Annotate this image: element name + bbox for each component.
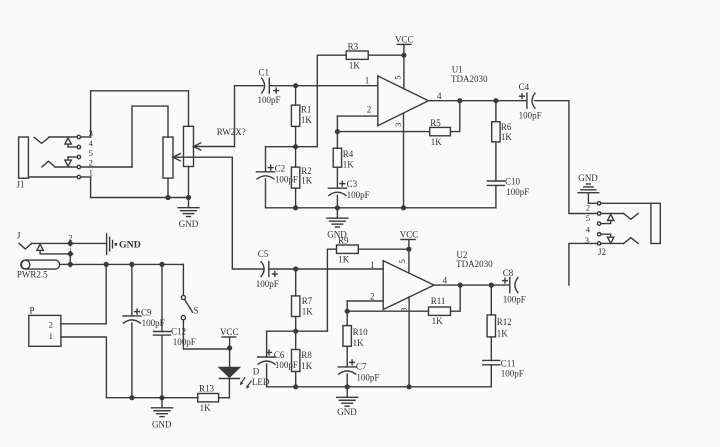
wire to pin1 U1	[296, 85, 378, 87]
ground ch1	[336, 208, 338, 218]
svg-text:C4: C4	[519, 82, 530, 92]
svg-text:TDA2030: TDA2030	[456, 259, 493, 269]
resistor R5	[430, 127, 451, 135]
wiper B	[173, 156, 232, 158]
J1 switch arrow pin4	[65, 138, 71, 144]
wire	[451, 285, 461, 311]
wire pad to ground	[70, 242, 106, 244]
J2 pin top	[597, 202, 600, 205]
resistor R12	[490, 285, 492, 315]
power jack barrel pin	[21, 260, 60, 269]
capacitor C8	[509, 278, 511, 293]
svg-text:1: 1	[69, 247, 72, 254]
ground rail power	[106, 397, 197, 399]
wire	[601, 213, 624, 215]
wire wiper A to C1	[235, 86, 264, 147]
svg-text:100pF: 100pF	[173, 337, 196, 347]
power jack switch arrow	[37, 244, 43, 250]
op-amp U1 TDA2030	[378, 76, 429, 126]
connector J1 body	[19, 137, 29, 178]
svg-text:1K: 1K	[301, 361, 313, 371]
wire	[28, 176, 77, 178]
svg-text:4: 4	[586, 225, 591, 235]
node	[293, 266, 298, 271]
pin 4 output wire	[428, 100, 527, 102]
wire to switch	[182, 264, 184, 295]
ground ch2	[346, 387, 348, 398]
svg-text:1K: 1K	[302, 307, 314, 317]
wire	[167, 178, 169, 197]
svg-text:R3: R3	[348, 42, 359, 52]
resistor R6	[495, 101, 497, 122]
J2 pin numbers	[585, 202, 591, 245]
svg-text:R4: R4	[343, 149, 354, 159]
capacitor C4	[526, 93, 528, 108]
potentiometer RW2X? section B	[163, 137, 173, 178]
svg-text:RW2X?: RW2X?	[217, 127, 246, 137]
feedback wire 2	[347, 310, 428, 312]
svg-text:1K: 1K	[432, 316, 444, 326]
J2 switch arrow pin3	[608, 237, 614, 243]
wire +V rail	[70, 263, 183, 265]
node pot ground junctions	[165, 195, 170, 200]
wire	[49, 136, 77, 138]
svg-text:4: 4	[89, 138, 94, 148]
svg-text:C10: C10	[505, 177, 521, 187]
svg-text:TDA2030: TDA2030	[451, 74, 488, 84]
node feedback 2	[345, 309, 350, 314]
pin 3 stem U1	[403, 113, 405, 208]
J1 ring contact chevron	[42, 161, 55, 167]
wire	[81, 166, 132, 168]
power jack pads	[67, 240, 74, 247]
svg-text:C6: C6	[274, 350, 285, 360]
svg-text:100pF: 100pF	[275, 360, 298, 370]
wire	[55, 166, 77, 168]
capacitor C10	[487, 180, 504, 182]
svg-text:R10: R10	[353, 327, 369, 337]
switch S	[181, 295, 185, 299]
node feedback	[335, 129, 340, 134]
wire P pin2	[61, 264, 106, 323]
svg-text:U1: U1	[452, 64, 463, 74]
svg-text:100pF: 100pF	[356, 373, 379, 383]
wire C8 to J2	[569, 243, 598, 285]
J1 pin 3	[77, 135, 80, 138]
wire	[601, 202, 651, 204]
wire	[368, 54, 404, 56]
J1 pin 5	[77, 155, 80, 158]
svg-text:VCC: VCC	[220, 327, 239, 337]
resistor R4	[336, 132, 338, 149]
svg-text:R5: R5	[430, 118, 441, 128]
svg-text:2: 2	[370, 291, 375, 301]
svg-text:100pF: 100pF	[503, 294, 526, 304]
wire	[228, 379, 230, 398]
svg-text:GND: GND	[337, 407, 357, 417]
capacitor C5	[268, 262, 270, 277]
svg-text:3: 3	[399, 308, 409, 312]
J1 pin 4	[77, 145, 80, 148]
svg-text:2: 2	[49, 320, 53, 330]
svg-text:2: 2	[89, 158, 93, 168]
wire pin1 down	[91, 177, 189, 198]
svg-text:R9: R9	[338, 236, 349, 246]
svg-text:1K: 1K	[349, 60, 361, 70]
svg-text:R11: R11	[431, 296, 446, 306]
svg-text:100pF: 100pF	[506, 187, 529, 197]
wire	[601, 234, 611, 237]
svg-text:2: 2	[367, 104, 372, 114]
svg-text:C2: C2	[275, 164, 286, 174]
svg-text:C7: C7	[356, 362, 367, 372]
resistor R7	[295, 269, 297, 296]
wire	[68, 156, 77, 158]
svg-text:C9: C9	[141, 308, 152, 318]
ground pots	[188, 198, 190, 208]
LED emission arrows	[240, 378, 251, 389]
svg-text:GND: GND	[578, 173, 598, 183]
svg-text:J: J	[17, 231, 21, 241]
svg-text:3: 3	[393, 123, 403, 127]
svg-text:2: 2	[69, 234, 73, 243]
svg-text:P: P	[30, 306, 35, 316]
capacitor C7	[338, 366, 356, 368]
potentiometer RW2X? section A	[184, 126, 194, 166]
svg-text:1K: 1K	[501, 132, 513, 142]
connector J2 body	[651, 203, 660, 243]
pin 2 wire U1	[337, 115, 377, 117]
svg-text:1K: 1K	[338, 255, 350, 265]
J1 switch arrow pin5	[65, 160, 71, 166]
svg-text:1K: 1K	[343, 160, 355, 170]
svg-text:S: S	[194, 305, 199, 315]
wire	[358, 248, 409, 250]
node B wire	[266, 146, 318, 148]
feedback wire	[337, 131, 429, 133]
wire pin3 to box	[91, 91, 189, 137]
connector P	[29, 315, 61, 346]
resistor R10	[346, 311, 348, 325]
svg-text:D: D	[253, 367, 260, 377]
svg-text:R7: R7	[302, 296, 313, 306]
svg-text:1: 1	[49, 331, 53, 341]
svg-text:1: 1	[365, 75, 370, 85]
svg-text:R12: R12	[497, 317, 512, 327]
wire	[81, 176, 91, 178]
svg-text:C11: C11	[501, 358, 516, 368]
svg-text:100pF: 100pF	[519, 110, 542, 120]
svg-text:1: 1	[89, 168, 93, 178]
wire node B to R3	[317, 55, 346, 147]
J2 pin 3	[597, 242, 600, 245]
svg-text:C8: C8	[503, 268, 514, 278]
svg-text:5: 5	[89, 148, 93, 158]
J1 pin numbers	[89, 128, 94, 177]
wire P pin1	[61, 337, 107, 398]
svg-text:4: 4	[443, 276, 448, 286]
svg-text:C1: C1	[259, 68, 270, 78]
svg-text:R8: R8	[301, 350, 312, 360]
wire C4 to J2	[535, 101, 597, 214]
svg-text:GND: GND	[179, 219, 199, 229]
pin 4 output wire 2	[434, 284, 510, 286]
capacitor C9	[131, 264, 133, 316]
svg-text:1K: 1K	[200, 403, 212, 413]
capacitor C6	[266, 331, 268, 357]
svg-text:100pF: 100pF	[258, 95, 281, 105]
wire pin2 inner route	[132, 106, 168, 167]
diode D LED	[219, 367, 239, 377]
svg-text:100pF: 100pF	[501, 369, 524, 379]
ground power	[161, 398, 163, 408]
J1 pin 2	[77, 165, 80, 168]
wire	[269, 85, 295, 87]
svg-text:5: 5	[393, 75, 403, 79]
svg-text:GND: GND	[119, 239, 141, 250]
J2 pin 5	[597, 222, 600, 225]
svg-text:100pF: 100pF	[275, 175, 298, 185]
resistor R8	[295, 331, 297, 349]
J2 pin 2	[597, 212, 600, 215]
J2 ring contact chevron	[624, 238, 639, 244]
svg-text:2: 2	[586, 202, 590, 212]
svg-text:3: 3	[585, 235, 589, 245]
wire	[601, 242, 624, 244]
svg-text:1K: 1K	[301, 115, 313, 125]
resistor R1	[295, 86, 297, 105]
wire switch to VCC node	[183, 320, 229, 349]
svg-text:4: 4	[437, 91, 442, 101]
J2 tip contact chevron	[624, 213, 639, 219]
svg-text:R1: R1	[301, 104, 312, 114]
pin 3 stem U2	[408, 297, 410, 387]
wire	[188, 167, 190, 198]
J2 pin 4	[597, 233, 600, 236]
svg-text:1K: 1K	[353, 338, 365, 348]
node	[293, 83, 298, 88]
node B2 wire	[267, 330, 328, 332]
wire	[450, 101, 459, 132]
svg-text:5: 5	[586, 213, 590, 223]
wire to pin1 U2	[296, 268, 384, 270]
capacitor C2	[265, 147, 267, 172]
ground bars power	[106, 234, 108, 254]
wiper A	[194, 146, 235, 148]
capacitor C3	[328, 187, 346, 189]
svg-text:C5: C5	[258, 249, 269, 259]
resistor R3	[346, 51, 368, 59]
ground rail ch2	[267, 386, 492, 388]
svg-text:100pF: 100pF	[347, 190, 370, 200]
resistor R13	[219, 397, 230, 399]
resistor R11	[429, 307, 451, 315]
wire	[588, 193, 597, 204]
svg-text:PWR2.5: PWR2.5	[17, 270, 48, 280]
svg-text:100pF: 100pF	[256, 279, 279, 289]
wire	[269, 268, 296, 270]
ground rail ch1	[266, 207, 496, 209]
svg-text:100pF: 100pF	[142, 318, 165, 328]
svg-text:LED: LED	[252, 377, 270, 387]
J2 switch arrow pin5	[608, 214, 614, 220]
resistor R9	[337, 245, 359, 253]
svg-text:1K: 1K	[301, 175, 313, 185]
capacitor C1	[268, 78, 270, 93]
capacitor C12	[161, 264, 163, 331]
wire R9 left	[327, 249, 336, 331]
svg-text:R6: R6	[501, 122, 512, 132]
capacitor C11	[483, 359, 500, 361]
wire	[81, 136, 91, 138]
svg-text:VCC: VCC	[400, 230, 419, 240]
svg-text:VCC: VCC	[395, 34, 414, 44]
op-amp U2 TDA2030	[383, 261, 434, 310]
svg-text:J1: J1	[17, 180, 25, 190]
svg-text:C3: C3	[347, 179, 358, 189]
svg-text:R13: R13	[199, 383, 215, 393]
svg-text:1K: 1K	[497, 329, 509, 339]
svg-text:J2: J2	[598, 247, 606, 257]
svg-text:5: 5	[397, 259, 407, 263]
resistor R2	[295, 147, 297, 167]
pin 2 wire U2	[347, 300, 383, 302]
J1 tip contact chevron	[34, 137, 49, 143]
svg-text:GND: GND	[152, 420, 172, 430]
svg-text:1K: 1K	[431, 137, 443, 147]
wire wiper B to C5	[232, 157, 263, 269]
J1 pin 1	[77, 175, 80, 178]
svg-text:1: 1	[370, 260, 375, 270]
